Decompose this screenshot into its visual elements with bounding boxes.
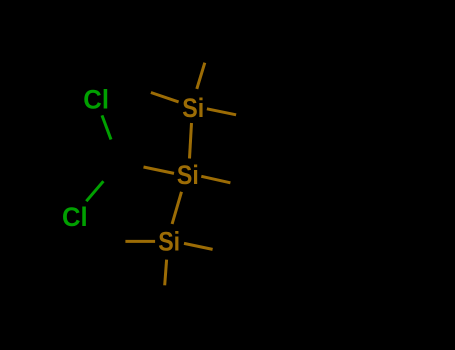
svg-text:Cl: Cl — [62, 202, 88, 232]
svg-text:Si: Si — [177, 160, 199, 190]
wire: bond Si3 methyl down — [165, 260, 167, 286]
svg-text:Cl: Cl — [83, 84, 109, 114]
wire: bond Si2 methyl right — [201, 176, 230, 183]
wire: bond Si3 methyl down-right — [184, 243, 213, 249]
wire: bond Si2-Si3 — [172, 192, 181, 224]
wire: bond Si3 methyl left — [125, 240, 155, 243]
wire: bond Si1 methyl up-right — [197, 63, 205, 89]
wire: bond Cl(top)-C — [102, 115, 111, 139]
svg-text:Si: Si — [182, 93, 204, 123]
wire: bond Si1 methyl right — [207, 109, 236, 115]
wire: bond C-Si2 — [144, 167, 175, 173]
wire: bond Si1 methyl left — [151, 93, 179, 102]
wire: bond Cl(bottom)-C — [86, 181, 103, 201]
svg-text:Si: Si — [158, 227, 180, 257]
wire: bond Si1-Si2 — [190, 123, 192, 159]
